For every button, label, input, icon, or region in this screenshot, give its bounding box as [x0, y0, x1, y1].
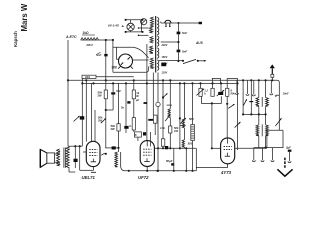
wire A ETC down	[67, 40, 69, 146]
wire col82	[81, 78, 83, 146]
wire T2 top	[68, 145, 82, 147]
wire tube1 anode	[85, 80, 87, 141]
svg-text:UF72: UF72	[138, 175, 149, 180]
switch S4	[226, 103, 228, 105]
wire U1 bottom	[113, 71, 146, 73]
wire ground bus mid	[125, 170, 197, 172]
wire bus2	[82, 82, 237, 84]
terminal arrow right	[199, 22, 202, 24]
junction antenna node	[105, 39, 107, 41]
fuse F1	[141, 20, 143, 32]
wire U1 anode right	[132, 59, 148, 61]
resistor R8	[212, 78, 214, 88]
capacitor C8	[165, 146, 168, 149]
capacitor C6	[74, 146, 76, 159]
wire IFT2 out	[266, 129, 283, 131]
wire T1 top lead	[156, 17, 161, 19]
wire fuse down	[146, 44, 148, 83]
wire C3 down	[177, 52, 179, 61]
transformer IFT2	[258, 114, 260, 125]
switch S6	[243, 100, 246, 106]
wire V3 right	[235, 147, 267, 149]
svg-text:10nF: 10nF	[283, 92, 289, 96]
resistor R9	[226, 78, 228, 88]
tube V3	[221, 138, 235, 164]
tube U1 envelope	[119, 54, 133, 68]
svg-text:UEL71: UEL71	[82, 175, 96, 180]
svg-text:908: 908	[112, 66, 118, 70]
wire V3 anode	[226, 96, 228, 143]
svg-text:W: W	[136, 94, 139, 98]
wire antenna vertical	[81, 39, 100, 41]
capacitor C10	[220, 83, 222, 92]
transformer T1 primary	[150, 17, 153, 26]
transformer T1 core	[155, 16, 157, 73]
svg-text:5n: 5n	[121, 106, 124, 110]
junction mains	[177, 22, 179, 24]
resistor R3	[105, 80, 107, 90]
junction V1 right	[105, 153, 107, 155]
transformer T2 secondary	[57, 149, 60, 166]
svg-text:4Y73: 4Y73	[220, 170, 232, 175]
wire V2 cathode	[146, 167, 148, 171]
resistor R10	[161, 139, 164, 146]
svg-text:A ETC: A ETC	[65, 35, 77, 39]
capacitor C7	[105, 147, 118, 149]
switch S3	[180, 118, 185, 123]
svg-text:50k: 50k	[231, 92, 236, 96]
switch S2	[162, 96, 164, 98]
capacitor C1 grid	[105, 40, 107, 54]
lamp LP1	[126, 19, 143, 21]
wire mid down	[211, 103, 213, 148]
wire T2 to tube	[79, 146, 81, 170]
svg-text:1W: 1W	[174, 129, 178, 133]
svg-text:µF: µF	[135, 98, 139, 102]
coil L4	[192, 83, 194, 124]
transformer IFT1	[258, 80, 260, 97]
capacitor C14	[144, 102, 148, 104]
wire T1 mid tap	[161, 41, 179, 43]
wire T1 tap 60	[159, 60, 183, 62]
wire if bus	[243, 113, 266, 115]
wire col237	[237, 83, 239, 150]
svg-text:220V: 220V	[161, 44, 168, 47]
ground mains arrow	[284, 158, 286, 169]
wire col163	[162, 80, 164, 148]
wire R1 to grid cap	[99, 39, 113, 41]
svg-text:500: 500	[189, 117, 194, 121]
capacitor C3	[177, 34, 179, 49]
switch S8	[276, 94, 280, 96]
wire mains block	[254, 130, 283, 147]
tube V2	[140, 141, 154, 167]
wire U loop	[202, 96, 222, 103]
svg-text:500: 500	[188, 142, 193, 146]
terminal hooks	[253, 148, 255, 161]
svg-text:2W: 2W	[97, 94, 102, 98]
wire taps left	[139, 27, 149, 29]
coil L1 interstage	[115, 152, 118, 167]
wire loop163	[167, 104, 172, 106]
antenna ANT	[270, 64, 275, 68]
capacitor C2	[177, 23, 179, 32]
resistor R7 trimmer	[200, 83, 202, 88]
svg-text:2W: 2W	[110, 127, 115, 131]
wire col153	[152, 73, 154, 116]
wire mains top	[161, 22, 199, 24]
coil L3	[183, 83, 185, 119]
wire col158	[157, 73, 159, 103]
wire V1 cathode	[93, 167, 95, 171]
switch S7	[101, 119, 106, 124]
capacitor C4	[112, 83, 114, 92]
wire tube1 top lead	[91, 83, 93, 146]
capacitor C9	[171, 163, 174, 165]
resistor R4	[118, 83, 120, 123]
svg-text:RFU: RFU	[87, 43, 94, 47]
svg-text:Kapsch: Kapsch	[13, 31, 18, 47]
wire bus loops	[212, 77, 221, 79]
transformer T2 core	[63, 148, 65, 168]
svg-text:5nF: 5nF	[182, 31, 187, 35]
svg-text:AUS: AUS	[195, 41, 204, 45]
svg-text:50µF: 50µF	[166, 159, 173, 163]
junction bus dots	[67, 79, 69, 81]
transformer T1 secondary windings	[157, 18, 159, 28]
wire V2 anode	[146, 83, 148, 140]
svg-text:150V: 150V	[162, 56, 168, 59]
resistor R1 antenna series	[81, 38, 99, 40]
svg-text:4.5k: 4.5k	[159, 127, 165, 130]
svg-text:2µF: 2µF	[285, 146, 291, 150]
capacitor C15	[148, 119, 153, 121]
wire corner196	[195, 148, 197, 171]
speaker LS	[40, 149, 47, 167]
tube V1	[86, 141, 100, 166]
trimmer arrow right	[275, 119, 281, 126]
contact row	[236, 80, 238, 93]
wire V3 left	[212, 147, 221, 149]
resistor R5	[133, 80, 135, 90]
svg-text:110V: 110V	[162, 71, 168, 74]
svg-text:1kΩ: 1kΩ	[83, 31, 90, 35]
svg-text:1W1: 1W1	[85, 76, 91, 79]
wire grid loop	[112, 40, 114, 72]
capacitor C13 padder	[80, 116, 85, 119]
capacitor C16	[143, 132, 146, 135]
svg-text:Mars W: Mars W	[20, 3, 29, 31]
switch S5	[235, 122, 241, 127]
svg-text:5nF: 5nF	[96, 53, 102, 57]
wire bus1	[68, 79, 277, 81]
capacitor C11	[249, 101, 253, 102]
resistor R6 grid stopper	[134, 132, 141, 137]
svg-text:B: B	[135, 134, 137, 137]
resistor R2 box V1N1	[82, 75, 96, 78]
wire bus3	[96, 76, 134, 78]
wire V2 right	[154, 147, 196, 149]
transformer T2 primary	[66, 147, 69, 168]
wire T2 bottom	[68, 167, 70, 172]
svg-text:6V 0.45: 6V 0.45	[108, 23, 119, 27]
switch S1	[182, 60, 184, 62]
wire V3 cathode	[196, 164, 227, 168]
wire col180	[179, 83, 181, 148]
mains plug P1	[165, 20, 172, 23]
wire loop180	[180, 125, 186, 127]
svg-text:5nF: 5nF	[182, 49, 187, 53]
